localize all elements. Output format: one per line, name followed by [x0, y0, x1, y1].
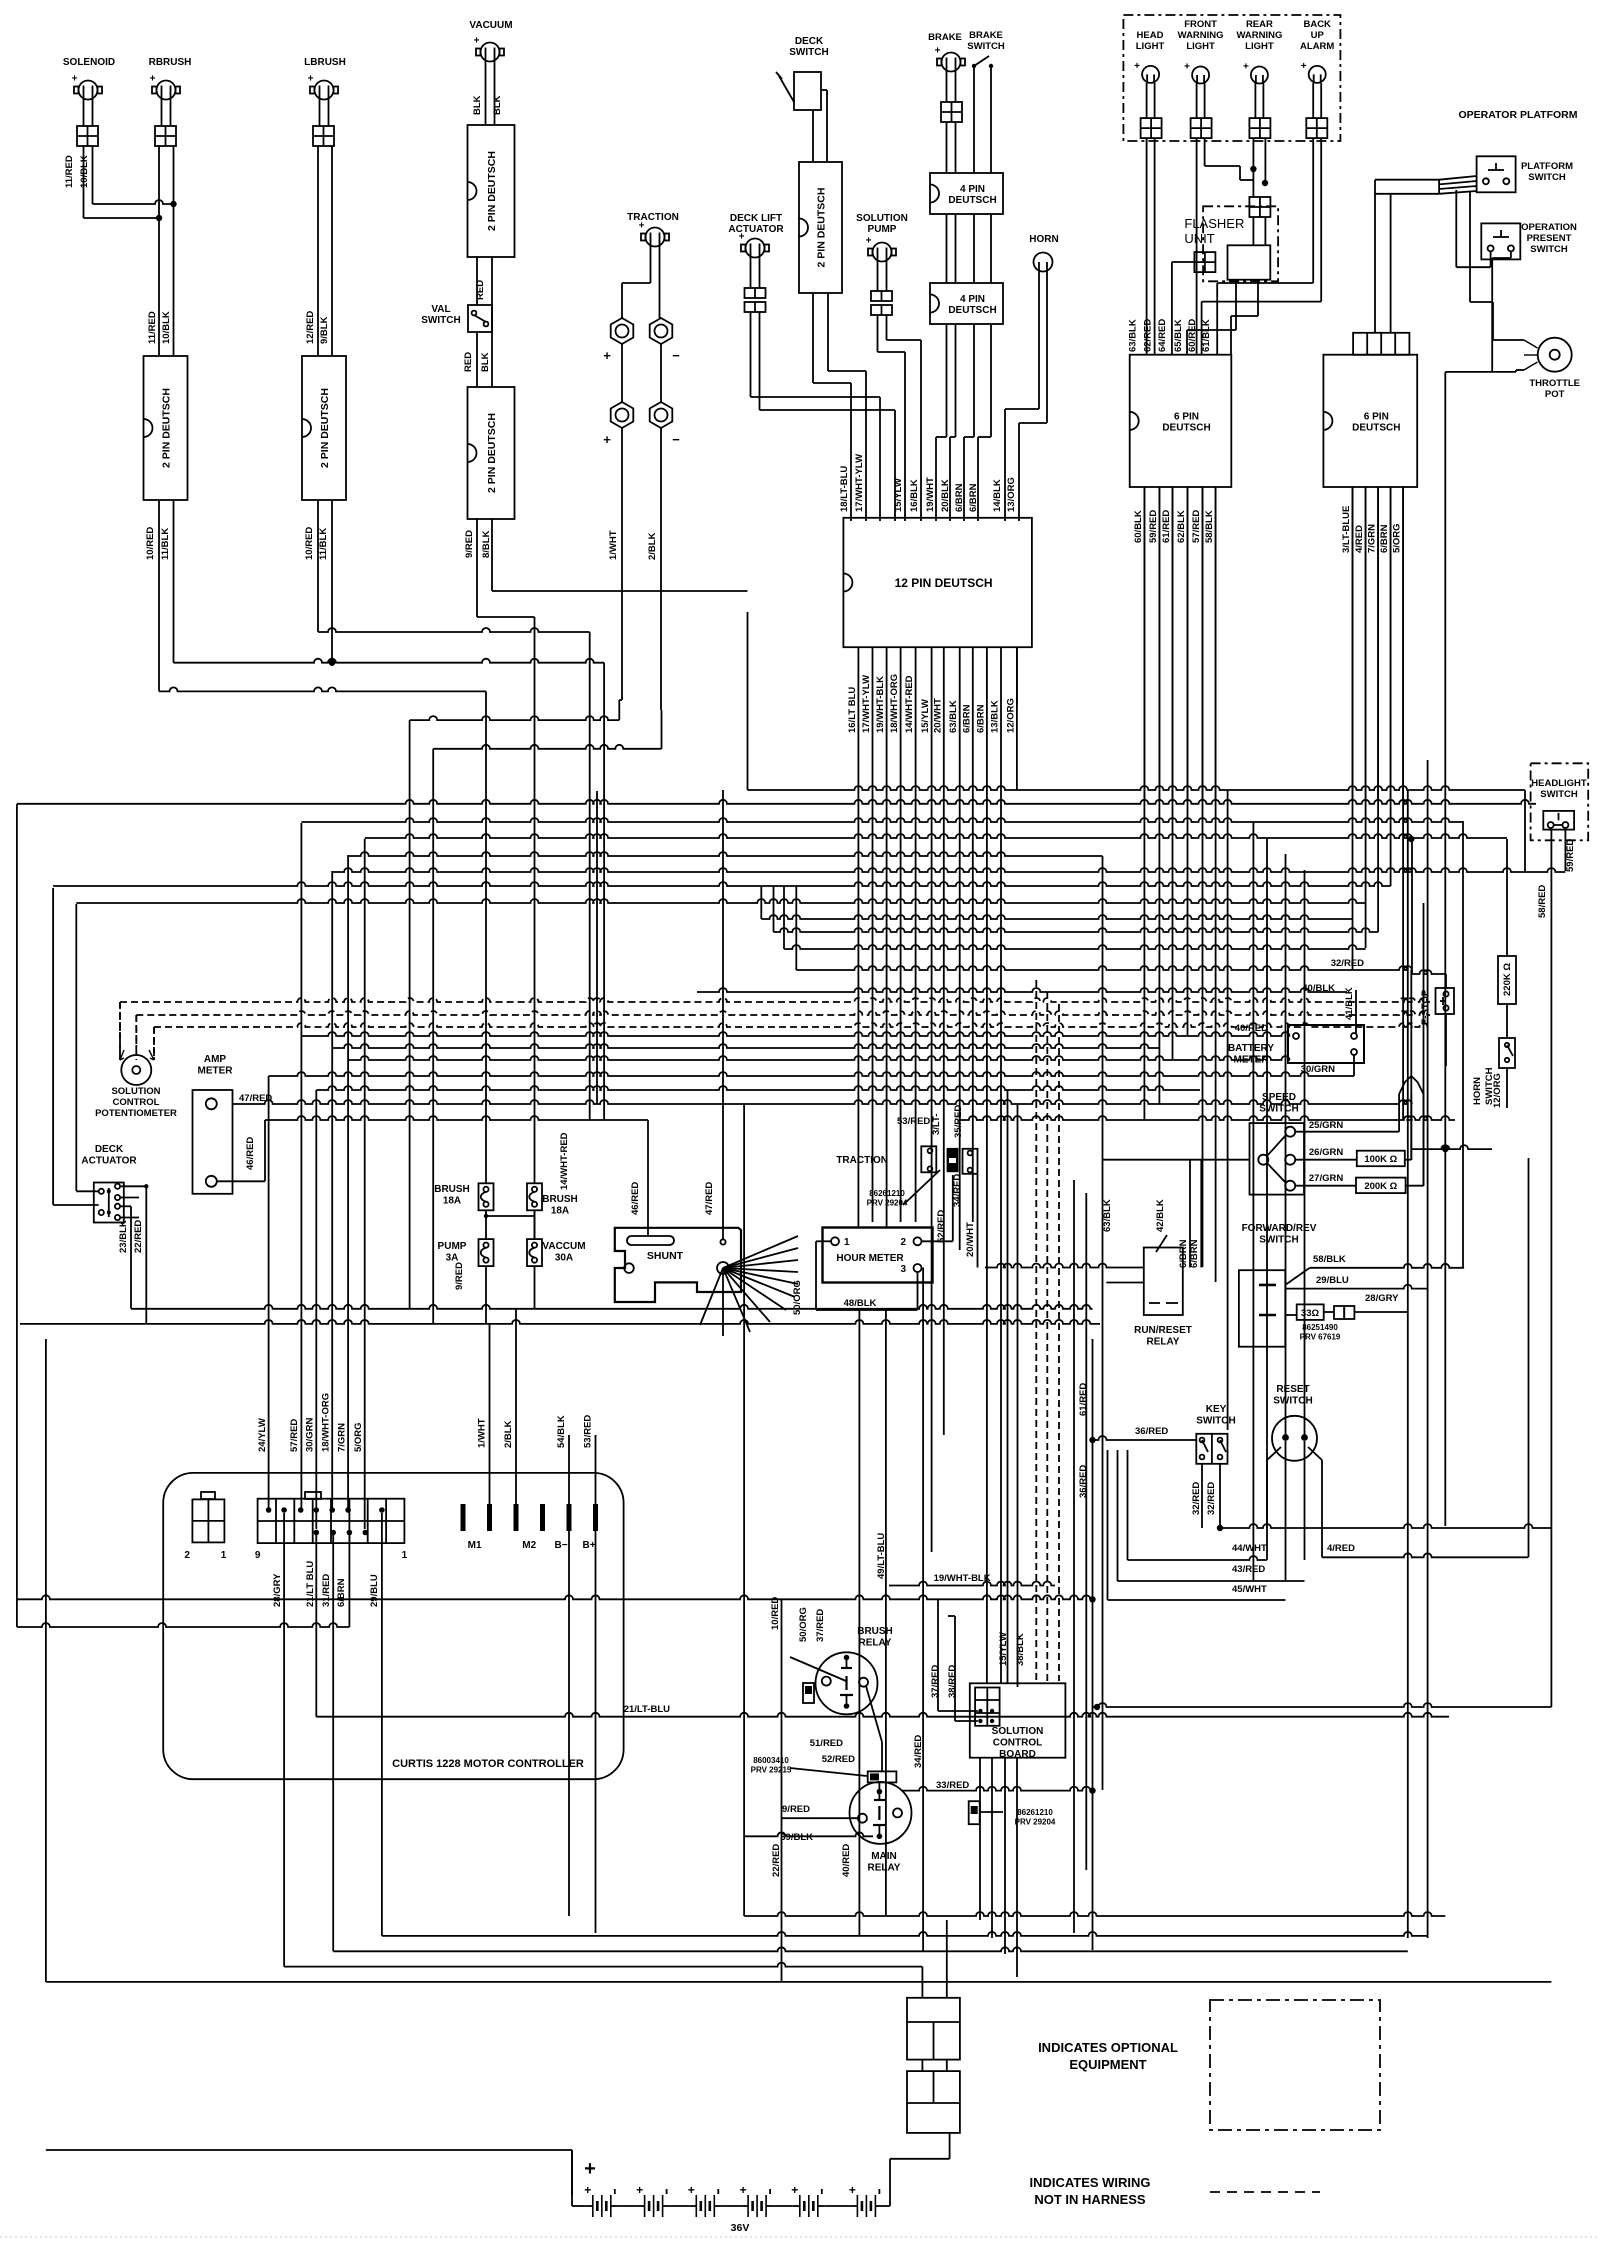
FLASHER UNIT box [1228, 245, 1271, 279]
svg-text:−: − [672, 432, 680, 447]
svg-text:60/BLK: 60/BLK [1133, 510, 1144, 543]
svg-text:22/RED: 22/RED [771, 1844, 782, 1877]
label 47/RED [239, 1093, 272, 1104]
scan artifact [0, 2236, 1600, 2238]
svg-text:SOLUTION: SOLUTION [992, 1726, 1044, 1737]
2 PIN DEUTSCH vacuum2 [468, 387, 515, 519]
wire lbrush below [318, 500, 332, 663]
wires 12pin below [858, 647, 1017, 705]
svg-text:RBRUSH: RBRUSH [149, 57, 192, 68]
label 53/RED mid [897, 1116, 930, 1127]
wire deck act right [120, 1186, 146, 1217]
wires 6pinR below [1353, 487, 1404, 800]
svg-text:+: + [150, 74, 156, 85]
label 1/WHT [608, 530, 619, 560]
svg-text:−: − [672, 348, 680, 363]
label 47/RED v [704, 1182, 715, 1215]
svg-text:14/WHT-RED: 14/WHT-RED [904, 675, 915, 733]
svg-text:INDICATES WIRING: INDICATES WIRING [1029, 2175, 1150, 2190]
label 22/RED v2 [771, 1844, 782, 1877]
svg-text:6/BRN: 6/BRN [336, 1578, 347, 1607]
svg-text:220K Ω: 220K Ω [1502, 963, 1513, 996]
svg-text:57/RED: 57/RED [289, 1419, 300, 1452]
wire 45wht [1108, 1450, 1286, 1600]
wire 51red [866, 1686, 882, 1771]
junction speed [1442, 1146, 1448, 1152]
wire hourmeter [816, 1175, 953, 1310]
svg-text:SOLUTION: SOLUTION [856, 213, 908, 224]
wire 22red right [20, 1320, 1100, 1324]
wire 58blk [1285, 1264, 1464, 1285]
PLATFORM SWITCH [1477, 156, 1574, 192]
label 19/WHT [925, 477, 936, 512]
wire vacuum leads [486, 61, 495, 125]
svg-text:57/RED: 57/RED [1191, 510, 1202, 543]
svg-text:2: 2 [184, 1550, 190, 1561]
label 59/RED v [1565, 839, 1576, 872]
svg-text:UNIT: UNIT [1184, 231, 1214, 246]
svg-text:40/RED: 40/RED [841, 1844, 852, 1877]
wire main relay conn [744, 1818, 873, 1836]
svg-text:46/RED: 46/RED [630, 1182, 641, 1215]
svg-text:+: + [474, 36, 480, 47]
svg-text:RELAY: RELAY [859, 1638, 892, 1649]
svg-text:59/RED: 59/RED [1565, 839, 1576, 872]
SPEED SWITCH [1250, 1092, 1305, 1195]
label 45/WHT [1232, 1584, 1267, 1595]
label 11/RED [64, 155, 75, 188]
svg-text:+: + [935, 46, 941, 57]
svg-text:B+: B+ [582, 1540, 595, 1551]
svg-text:47/RED: 47/RED [704, 1182, 715, 1215]
svg-text:SWITCH: SWITCH [1540, 789, 1578, 800]
wire 52red stub [878, 1782, 880, 1789]
terminal nut traction -2 [650, 402, 681, 447]
svg-text:45/WHT: 45/WHT [1232, 1584, 1267, 1595]
svg-text:+: + [636, 2183, 643, 2197]
label 3/LT-BLUE v [931, 1114, 942, 1135]
conn flasher top [1249, 197, 1270, 217]
svg-text:52/RED: 52/RED [822, 1754, 855, 1765]
label BLK c [480, 352, 491, 372]
wire lamp leads [1147, 83, 1322, 118]
curtis terminal strip [255, 1492, 408, 1561]
svg-text:14/BLK: 14/BLK [992, 479, 1003, 512]
label 40/RED v [841, 1844, 852, 1877]
wire speed junction [1411, 1145, 1492, 1149]
svg-text:5/ORG: 5/ORG [1392, 523, 1403, 553]
svg-text:42/BLK: 42/BLK [1155, 1199, 1166, 1232]
svg-text:+: + [866, 236, 872, 247]
svg-text:BATTERY: BATTERY [1228, 1043, 1274, 1054]
svg-text:13/ORG: 13/ORG [1006, 477, 1017, 512]
wire band horizontals [17, 786, 1566, 1120]
svg-text:+: + [1184, 62, 1190, 73]
label 36V [731, 2222, 750, 2234]
wire conn stack [922, 1920, 946, 1998]
svg-text:46/RED: 46/RED [245, 1137, 256, 1170]
AMP METER [193, 1054, 234, 1194]
wire headlight down [1147, 138, 1155, 355]
svg-text:HORN: HORN [1029, 234, 1058, 245]
svg-text:16/LT BLU: 16/LT BLU [847, 687, 858, 733]
6 PIN DEUTSCH right [1323, 355, 1417, 487]
svg-text:60/RED: 60/RED [1187, 319, 1198, 352]
svg-text:TRACTION: TRACTION [836, 1155, 888, 1166]
4 PIN DEUTSCH 1 [930, 173, 1003, 214]
connector decklift [745, 288, 766, 312]
labels strip top [257, 1393, 364, 1452]
svg-text:SWITCH: SWITCH [1528, 172, 1566, 183]
motor VACUUM [469, 20, 512, 62]
wire brakes mid [947, 214, 992, 283]
svg-text:EQUIPMENT: EQUIPMENT [1069, 2057, 1146, 2072]
svg-text:AMP: AMP [204, 1054, 227, 1065]
svg-text:2: 2 [900, 1237, 906, 1248]
svg-text:POT: POT [1545, 389, 1565, 400]
wire speed 25 [1295, 1094, 1399, 1132]
label 28/GRY [1365, 1293, 1399, 1304]
dash sample [1210, 2191, 1320, 2193]
conn frontwarn [1191, 118, 1212, 138]
svg-text:WARNING: WARNING [1178, 30, 1224, 41]
svg-text:RUN/RESET: RUN/RESET [1134, 1325, 1192, 1336]
svg-text:SWITCH: SWITCH [1530, 244, 1568, 255]
svg-text:86003410: 86003410 [753, 1756, 789, 1765]
svg-text:MAIN: MAIN [871, 1851, 897, 1862]
motor SOLUTION PUMP [856, 213, 908, 262]
svg-text:LBRUSH: LBRUSH [304, 57, 346, 68]
svg-text:HORN: HORN [1472, 1077, 1483, 1105]
svg-text:35/RED: 35/RED [953, 1105, 964, 1138]
labels 6pinR below [1341, 506, 1403, 553]
svg-text:METER: METER [198, 1066, 234, 1077]
label 10/RED r [770, 1597, 781, 1630]
conn flasher left [1194, 252, 1215, 272]
traction callout [867, 1170, 940, 1208]
svg-text:BLK: BLK [480, 352, 491, 372]
svg-text:SWITCH: SWITCH [789, 47, 828, 58]
label 58/BLK [1313, 1254, 1346, 1265]
svg-text:CONTROL: CONTROL [113, 1097, 160, 1108]
svg-text:REAR: REAR [1246, 19, 1273, 30]
wire traction leads [622, 246, 660, 318]
label 15/YLW [893, 478, 904, 512]
junction key2 [1217, 1525, 1223, 1531]
svg-text:LIGHT: LIGHT [1186, 41, 1215, 52]
svg-text:38/BLK: 38/BLK [1015, 1633, 1026, 1666]
svg-text:ACTUATOR: ACTUATOR [728, 224, 784, 235]
svg-text:11/BLK: 11/BLK [160, 528, 171, 560]
svg-text:1: 1 [844, 1237, 850, 1248]
wire brake sw down [974, 68, 991, 173]
svg-text:12/ORG: 12/ORG [1492, 1073, 1503, 1108]
svg-text:11/RED: 11/RED [64, 155, 75, 188]
svg-text:10/RED: 10/RED [145, 527, 156, 560]
throttle pot leads [1524, 340, 1538, 370]
svg-text:62/RED: 62/RED [1142, 319, 1153, 352]
svg-text:44/WHT: 44/WHT [1232, 1543, 1267, 1554]
svg-text:34/RED: 34/RED [952, 1174, 963, 1207]
wire speed 27 [1295, 1185, 1356, 1187]
svg-text:61/RED: 61/RED [1161, 510, 1172, 543]
svg-text:WARNING: WARNING [1236, 30, 1282, 41]
svg-text:NOT IN HARNESS: NOT IN HARNESS [1034, 2192, 1146, 2207]
svg-text:SWITCH: SWITCH [421, 315, 460, 326]
svg-text:SOLUTION: SOLUTION [111, 1086, 160, 1097]
label 58/RED v [1537, 885, 1548, 918]
svg-text:22/RED: 22/RED [133, 1220, 144, 1253]
svg-text:FORWARD/REV: FORWARD/REV [1242, 1223, 1317, 1234]
svg-text:+: + [1301, 61, 1307, 72]
svg-text:32/RED: 32/RED [1191, 1482, 1202, 1515]
svg-text:2 PIN DEUTSCH: 2 PIN DEUTSCH [486, 413, 498, 493]
brush relay comp [790, 1657, 846, 1703]
wire battery right [882, 2133, 949, 2206]
wire flasher drop [1253, 217, 1265, 245]
wire conn stack mid [922, 2060, 946, 2072]
svg-text:9: 9 [255, 1550, 261, 1561]
svg-text:59/RED: 59/RED [1148, 510, 1159, 543]
SHUNT [615, 1228, 741, 1302]
svg-text:1: 1 [402, 1550, 408, 1561]
svg-text:BOARD: BOARD [999, 1749, 1036, 1760]
svg-text:11/BLK: 11/BLK [318, 528, 329, 560]
svg-text:30/GRN: 30/GRN [305, 1418, 316, 1452]
label 16/BLK [909, 479, 920, 512]
svg-text:LIGHT: LIGHT [1136, 41, 1165, 52]
svg-text:12/RED: 12/RED [305, 311, 316, 344]
svg-text:HOUR METER: HOUR METER [836, 1253, 904, 1264]
wire nuts down [619, 428, 661, 749]
svg-text:DEUTSCH: DEUTSCH [1162, 422, 1210, 433]
svg-text:17/WHT-YLW: 17/WHT-YLW [854, 454, 865, 512]
wire 30grn [1353, 1055, 1355, 1076]
svg-text:SWITCH: SWITCH [967, 41, 1005, 52]
wire reset leads [1286, 1441, 1305, 1581]
svg-text:4 PIN: 4 PIN [960, 184, 985, 195]
label 32/RED [1331, 958, 1364, 969]
label 11/RED b [147, 311, 158, 344]
svg-text:PRV 67619: PRV 67619 [1300, 1333, 1341, 1342]
lamp BACK UP ALARM [1300, 19, 1334, 83]
svg-text:10/BLK: 10/BLK [79, 155, 90, 188]
motor TRACTION [627, 212, 679, 247]
wire rbrush down [159, 146, 174, 356]
svg-text:BLK: BLK [492, 95, 503, 115]
svg-text:58/BLK: 58/BLK [1313, 1254, 1346, 1265]
wire traction bend [410, 716, 662, 749]
label 12/ORG v [1492, 1073, 1503, 1108]
svg-text:6 PIN: 6 PIN [1174, 411, 1199, 422]
main relay callout [751, 1756, 867, 1776]
svg-text:13/BLK: 13/BLK [990, 700, 1001, 733]
svg-text:86261210: 86261210 [869, 1189, 905, 1198]
label 52/RED v [936, 1210, 947, 1243]
svg-text:7/GRN: 7/GRN [1367, 524, 1378, 553]
label 25/GRN [1309, 1120, 1343, 1131]
label 63/BLK v [1102, 1199, 1113, 1232]
label 36/RED [1135, 1426, 1168, 1437]
svg-text:9/RED: 9/RED [464, 530, 475, 558]
svg-text:16/BLK: 16/BLK [909, 479, 920, 512]
svg-text:RED: RED [463, 352, 474, 372]
label 61/RED v [1078, 1383, 1089, 1416]
wire stair left [159, 628, 604, 691]
wire deck below [813, 293, 866, 521]
wire speed 27b [1406, 1094, 1424, 1186]
label 35/RED v [953, 1105, 964, 1138]
wire flasher out [1187, 280, 1258, 355]
svg-text:19/WHT-BLK: 19/WHT-BLK [875, 676, 886, 733]
svg-text:+: + [639, 221, 645, 232]
svg-text:10/RED: 10/RED [770, 1597, 781, 1630]
svg-text:52/RED: 52/RED [936, 1210, 947, 1243]
4 PIN DEUTSCH 2 [930, 283, 1003, 324]
svg-text:BRAKE: BRAKE [969, 30, 1003, 41]
OPERATOR PLATFORM label [1459, 109, 1578, 121]
wire bottom 2150 [46, 2149, 572, 2151]
connector pump [871, 291, 892, 315]
connector rbrush [155, 126, 176, 146]
motor BRAKE [928, 32, 965, 72]
svg-text:FLASHER: FLASHER [1184, 216, 1244, 231]
svg-text:SWITCH: SWITCH [1259, 1235, 1298, 1246]
label 10/RED [145, 527, 156, 560]
label 10/RED b [304, 527, 315, 560]
brake switch sym [972, 56, 993, 68]
wire flasher left [1172, 262, 1195, 306]
BRUSH RELAY [816, 1626, 893, 1714]
SOLUTION CONTROL BOARD [970, 1683, 1066, 1760]
label 39/BLK [780, 1832, 813, 1843]
label 26/GRN [1309, 1147, 1343, 1158]
label 9/RED [782, 1804, 810, 1815]
label 14/WHT-RED [559, 1132, 570, 1190]
wire rbrush leads [162, 99, 171, 126]
optional lights dashed box [1123, 15, 1340, 141]
wire 1528 line [1220, 1524, 1551, 1528]
svg-text:20/WHT: 20/WHT [932, 698, 943, 733]
svg-text:TRACTION: TRACTION [627, 212, 679, 223]
100K resistor [1357, 1151, 1405, 1167]
svg-text:+: + [1134, 61, 1140, 72]
optional eq box [1210, 2000, 1380, 2130]
labels M bars [477, 1415, 594, 1448]
wire speed common [1103, 1159, 1250, 1161]
svg-text:28/GRY: 28/GRY [1365, 1293, 1399, 1304]
svg-text:36/RED: 36/RED [1078, 1465, 1089, 1498]
svg-text:29/BLU: 29/BLU [1316, 1275, 1349, 1286]
svg-text:OPERATION: OPERATION [1521, 222, 1577, 233]
conn rearwarn [1249, 118, 1270, 138]
svg-text:KEY: KEY [1206, 1404, 1227, 1415]
HOUR METER [823, 1228, 933, 1283]
svg-text:36V: 36V [731, 2222, 750, 2234]
svg-text:DEUTSCH: DEUTSCH [1352, 422, 1400, 433]
svg-text:61/BLK: 61/BLK [1201, 319, 1212, 352]
labels 12pin below [847, 674, 1017, 733]
wire 23blk right [131, 1305, 1093, 1309]
svg-text:VAL: VAL [431, 304, 450, 315]
terminal nut traction -1 [650, 318, 681, 363]
2 PIN DEUTSCH deck [799, 162, 842, 293]
svg-text:1/WHT: 1/WHT [608, 530, 619, 560]
svg-text:53/RED: 53/RED [897, 1116, 930, 1127]
svg-text:1/WHT: 1/WHT [477, 1418, 488, 1448]
2 PIN DEUTSCH vacuum [468, 125, 515, 257]
wire reset outer [1267, 1447, 1322, 1557]
label 33/RED [936, 1780, 969, 1791]
label 10/BLK b [161, 311, 172, 344]
svg-text:RELAY: RELAY [1147, 1337, 1180, 1348]
svg-text:UP: UP [1311, 30, 1325, 41]
wire stair left2 [477, 591, 748, 617]
wire nuts mid [622, 344, 661, 402]
label 50/ORG r [798, 1607, 809, 1642]
connector brake [941, 102, 962, 122]
label 9/RED mid [454, 1262, 465, 1290]
label 12/RED [305, 311, 316, 344]
svg-text:47/RED: 47/RED [239, 1093, 272, 1104]
label 48/BLK [844, 1298, 877, 1309]
svg-text:21/LT-BLU: 21/LT-BLU [624, 1704, 670, 1715]
HORN SWITCH [1472, 1038, 1515, 1105]
svg-text:23/BLK: 23/BLK [118, 1220, 129, 1253]
svg-text:CURTIS 1228 MOTOR CONTROLLE: CURTIS 1228 MOTOR CONTROLLER [392, 1758, 584, 1770]
svg-text:VACUUM: VACUUM [469, 20, 512, 31]
svg-text:200K Ω: 200K Ω [1364, 1181, 1397, 1192]
wire brake down [947, 122, 956, 173]
label 52/RED b [822, 1754, 855, 1765]
svg-text:30A: 30A [555, 1253, 573, 1264]
svg-text:15/YLW: 15/YLW [893, 478, 904, 512]
svg-text:DEUTSCH: DEUTSCH [948, 195, 996, 206]
label 29/BLU [1316, 1275, 1349, 1286]
svg-text:2 PIN DEUTSCH: 2 PIN DEUTSCH [486, 151, 498, 231]
svg-text:64/RED: 64/RED [1157, 319, 1168, 352]
connector lbrush [313, 126, 334, 146]
label 6/BRN b [968, 483, 979, 512]
wire left bottom [46, 1981, 1552, 1983]
svg-text:28/GRY: 28/GRY [272, 1573, 283, 1607]
svg-text:SWITCH: SWITCH [1259, 1104, 1298, 1115]
svg-text:6 PIN: 6 PIN [1364, 411, 1389, 422]
svg-text:6/BRN: 6/BRN [1379, 524, 1390, 553]
conn backup [1306, 118, 1327, 138]
svg-text:2 PIN DEUTSCH: 2 PIN DEUTSCH [319, 388, 331, 468]
svg-text:RELAY: RELAY [868, 1863, 901, 1874]
wire 46red [217, 1120, 265, 1181]
svg-text:18A: 18A [551, 1206, 569, 1217]
label 21/LT-BLU [624, 1704, 670, 1715]
label 30/GRN [1301, 1064, 1335, 1075]
lamp FRONT WARNING LIGHT [1178, 19, 1224, 84]
svg-text:4/RED: 4/RED [1327, 1543, 1355, 1554]
svg-text:27/GRN: 27/GRN [1309, 1173, 1343, 1184]
220K resistor [1498, 956, 1516, 1004]
svg-text:18A: 18A [443, 1196, 461, 1207]
wire solenoid leads [84, 99, 93, 126]
wires 6pinL below [1144, 487, 1215, 800]
TRACTION mid [836, 1146, 977, 1174]
svg-text:6/BRN: 6/BRN [961, 704, 972, 733]
svg-text:PRESENT: PRESENT [1527, 233, 1572, 244]
CURTIS 1228 MOTOR CONTROLLER box [163, 1473, 623, 1779]
svg-text:PRV 29215: PRV 29215 [751, 1766, 792, 1775]
svg-text:9/RED: 9/RED [782, 1804, 810, 1815]
svg-text:5/ORG: 5/ORG [353, 1422, 364, 1452]
